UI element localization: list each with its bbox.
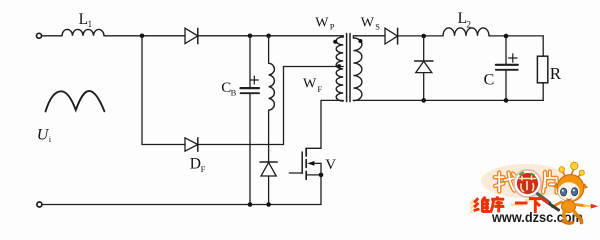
transformer primary winding WP/WF xyxy=(303,15,343,101)
resistor R xyxy=(537,36,561,101)
wire top from terminal to L1 xyxy=(42,35,62,37)
MOSFET V xyxy=(289,148,336,204)
logo red text weikuyixia shadow xyxy=(470,200,539,212)
wire junction down to DF row xyxy=(141,36,143,145)
node freewheel bottom xyxy=(421,98,426,103)
node tap junction xyxy=(337,64,341,68)
svg-text:P: P xyxy=(330,21,335,31)
transformer core xyxy=(347,34,350,102)
svg-text:R: R xyxy=(550,64,562,83)
capacitor CB xyxy=(221,36,259,205)
node clamp bottom xyxy=(266,202,271,207)
svg-text:2: 2 xyxy=(466,20,471,30)
xia xyxy=(529,199,543,213)
svg-text:F: F xyxy=(201,164,206,174)
node C top xyxy=(504,34,509,39)
wire DF up to tap xyxy=(283,67,285,145)
svg-text:B: B xyxy=(231,88,237,98)
wire L2 to output xyxy=(489,35,543,37)
ku xyxy=(490,196,504,212)
wire WF bottom to drain xyxy=(321,100,343,148)
node C bottom xyxy=(504,98,509,103)
wire L1 to diode D1 xyxy=(104,35,185,37)
node CB top xyxy=(248,34,253,39)
transformer secondary winding WS xyxy=(353,15,380,100)
logo red text weikuyixia xyxy=(474,196,543,213)
bottom rail xyxy=(42,204,321,206)
svg-text:W: W xyxy=(303,77,317,92)
polarity dot WP xyxy=(333,40,337,44)
input terminal top xyxy=(37,33,42,38)
clamp diode (vertical, cathode up) xyxy=(260,162,277,205)
svg-text:S: S xyxy=(375,21,380,31)
watermark logo xyxy=(470,160,598,226)
wire diode to L2 xyxy=(398,35,443,37)
input voltage waveform Ui xyxy=(37,91,105,144)
wei xyxy=(474,198,480,210)
node clamp top xyxy=(266,34,271,39)
svg-text:V: V xyxy=(325,157,336,173)
wire D1 to transformer top xyxy=(198,35,343,37)
svg-text:1: 1 xyxy=(88,19,93,29)
magnifier with xin char xyxy=(514,170,550,203)
freewheel diode output (vertical, cathode up) xyxy=(415,36,433,100)
svg-text:W: W xyxy=(361,15,375,30)
svg-text:C: C xyxy=(484,72,495,89)
freewheel diode DF xyxy=(142,138,284,174)
inductor L2 xyxy=(443,10,489,36)
svg-text:W: W xyxy=(315,15,329,30)
svg-text:D: D xyxy=(190,155,201,172)
node input junction xyxy=(140,34,145,39)
inductor L1 xyxy=(62,11,104,36)
capacitor C xyxy=(484,36,518,100)
diode output rectifier xyxy=(385,28,398,44)
wire WS top to output diode xyxy=(353,35,385,37)
mascot xyxy=(543,160,598,224)
output bottom rail xyxy=(353,99,543,101)
node freewheel top xyxy=(421,34,426,39)
yi xyxy=(515,202,528,205)
diode D1 (top rectifier) xyxy=(185,28,198,43)
logo char zhao (find) outlined xyxy=(495,173,515,192)
node CB bottom xyxy=(248,202,253,207)
logo glow xyxy=(481,164,571,198)
clamp branch inductor (winding) xyxy=(269,36,275,162)
svg-text:i: i xyxy=(49,134,52,144)
svg-text:F: F xyxy=(317,84,322,94)
wire tap to transformer xyxy=(284,66,344,68)
input terminal bottom xyxy=(37,202,42,207)
polarity dot WS xyxy=(358,39,362,43)
logo char pian (chip) outlined xyxy=(543,172,557,193)
